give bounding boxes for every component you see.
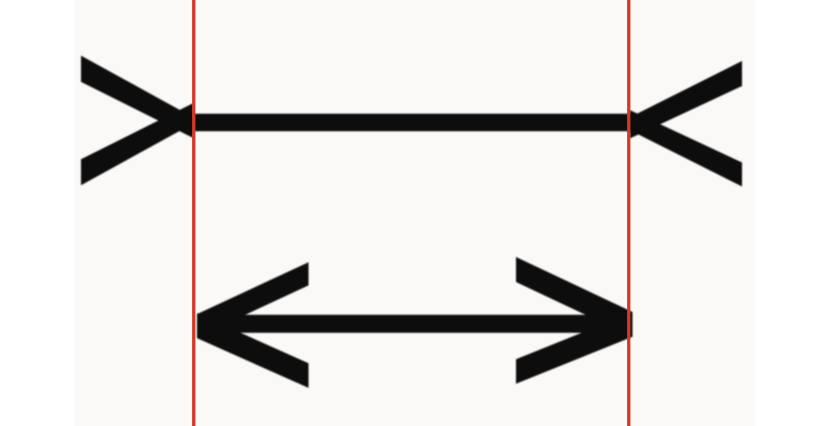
bottom-left arrowhead [197,262,309,337]
wire: bottom shaft (double-headed arrow) [197,315,633,333]
top-left outward fin [81,56,193,138]
top-right outward fin [630,61,742,138]
node A: left red reference line [192,0,195,426]
bottom-right arrowhead [516,257,633,337]
wire: top shaft (fins-out line) [190,114,632,132]
node B: right red reference line [627,0,630,426]
